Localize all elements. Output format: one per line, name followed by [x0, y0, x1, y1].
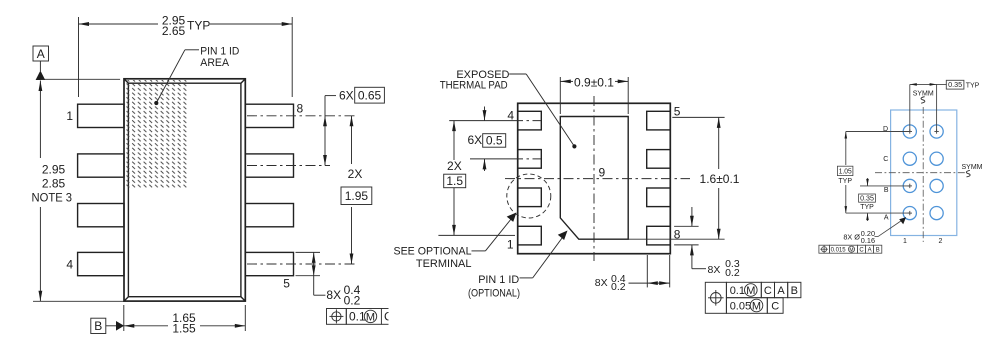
centerline pin 4 (middle) [449, 120, 541, 122]
svg-text:1: 1 [66, 109, 73, 123]
svg-text:C: C [883, 156, 888, 163]
svg-text:8X: 8X [708, 264, 721, 276]
svg-text:PIN 1 ID: PIN 1 ID [478, 274, 519, 286]
pin 7 terminal [647, 188, 671, 207]
svg-text:C: C [764, 285, 772, 297]
dimension 8X 0.4/0.2 (middle pin width) [595, 255, 670, 293]
svg-text:D: D [883, 126, 888, 133]
datum B [91, 318, 124, 333]
svg-text:8X: 8X [595, 277, 608, 289]
pad D1 [903, 125, 916, 138]
svg-text:0.1: 0.1 [349, 310, 366, 324]
svg-text:1.05: 1.05 [839, 169, 852, 176]
dimension 6X 0.5 (middle) [468, 107, 506, 172]
svg-text:8: 8 [297, 102, 304, 116]
svg-text:M: M [366, 311, 375, 323]
pad D2 [930, 125, 943, 138]
svg-text:0.05: 0.05 [730, 300, 751, 312]
svg-text:A: A [884, 214, 889, 221]
dimension 0.35 TYP (top, between columns) [910, 80, 980, 131]
svg-text:0.9±0.1: 0.9±0.1 [574, 75, 614, 89]
pin 7 (right) [245, 154, 293, 177]
svg-text:2.95: 2.95 [42, 163, 66, 177]
label PIN 1 ID AREA with leader [154, 45, 239, 105]
svg-text:1.5: 1.5 [446, 174, 463, 188]
svg-text:0.35: 0.35 [860, 196, 874, 203]
dimension 1.6 +/- 0.1 [628, 117, 740, 239]
pin 1 terminal (bottom-left) [507, 226, 541, 251]
label 8X diameter 0.20/0.16 with leader [843, 217, 906, 245]
svg-text:A: A [868, 248, 872, 254]
svg-text:THERMAL PAD: THERMAL PAD [440, 80, 508, 92]
pin 2 terminal [518, 188, 542, 207]
pad B2 [930, 179, 943, 192]
feature control frame 0.1 M (truncated) [327, 305, 403, 327]
label EXPOSED THERMAL PAD with leader [440, 69, 577, 148]
centerline pin 8 [247, 115, 356, 117]
svg-text:0.2: 0.2 [725, 267, 740, 279]
svg-text:0.35: 0.35 [948, 82, 962, 89]
svg-text:PIN 1 ID: PIN 1 ID [200, 45, 239, 57]
svg-text:TYP: TYP [966, 83, 980, 90]
svg-text:2: 2 [939, 238, 943, 245]
dimension 0.9 +/- 0.1 [560, 75, 628, 114]
svg-text:0.1: 0.1 [730, 285, 745, 297]
pin 1 (left) [66, 104, 124, 127]
horizontal centerline (middle view) [505, 178, 690, 180]
svg-text:TYP: TYP [860, 204, 874, 211]
exposed thermal pad outline [560, 117, 628, 240]
svg-text:1.55: 1.55 [172, 321, 196, 335]
svg-text:TYP: TYP [838, 178, 852, 185]
svg-text:2X: 2X [447, 159, 462, 173]
label SEE OPTIONAL TERMINAL with leader [394, 213, 517, 270]
optional terminal dashed circle [507, 174, 551, 218]
datum A [33, 46, 120, 80]
dimension 2X 1.5 (middle) [444, 121, 466, 236]
pin 3 (left) [78, 204, 124, 227]
pad A2 [930, 207, 943, 220]
svg-text:1: 1 [507, 238, 514, 252]
land pattern board outline [891, 110, 957, 236]
svg-text:SEE OPTIONAL: SEE OPTIONAL [394, 245, 472, 257]
centerline pin 3 (middle) [470, 158, 541, 160]
label PIN 1 ID (OPTIONAL) with leader [468, 231, 568, 300]
svg-text:0.015: 0.015 [831, 247, 847, 253]
svg-text:5: 5 [283, 277, 290, 291]
svg-text:0.2: 0.2 [344, 293, 361, 307]
row labels [883, 126, 889, 221]
svg-text:TERMINAL: TERMINAL [416, 258, 472, 270]
svg-text:TYP: TYP [187, 19, 210, 33]
svg-text:5: 5 [674, 105, 681, 119]
svg-text:8X: 8X [326, 288, 341, 302]
wire: top dimension extension line right [291, 17, 293, 97]
dimension 6X 0.65 [323, 87, 384, 165]
svg-text:M: M [752, 300, 761, 312]
svg-text:B: B [94, 319, 102, 333]
svg-text:A: A [777, 285, 785, 297]
pin 3 terminal [518, 150, 542, 169]
pad A1 [903, 207, 916, 220]
dimension 1.65/1.55 [124, 305, 246, 335]
column symm centerline (dash-dot vertical) [922, 107, 924, 242]
dimension 8X 0.3/0.2 (middle pin length) [674, 207, 740, 279]
svg-text:M: M [849, 247, 853, 253]
svg-text:4: 4 [66, 258, 73, 272]
pin 1 ID hatched area [125, 80, 188, 189]
SYMM label right [962, 164, 983, 177]
svg-text:C: C [771, 300, 779, 312]
pad C1 [903, 152, 916, 165]
dimension 2.95/2.65 TYP line [79, 14, 293, 38]
dimension 0.35 TYP (left, rows B to A) [859, 178, 910, 221]
pin 6 (right) [245, 204, 293, 227]
svg-text:NOTE 3: NOTE 3 [32, 191, 73, 205]
dimension 8X 0.4/0.2 (pin width) [296, 252, 361, 307]
svg-text:2X: 2X [348, 167, 363, 181]
svg-text:A: A [37, 47, 45, 61]
svg-text:B: B [876, 248, 880, 254]
svg-text:6X: 6X [468, 133, 483, 147]
column labels [903, 238, 943, 245]
svg-text:SYMM: SYMM [962, 164, 983, 171]
package body outline (bottom view) [518, 103, 671, 253]
svg-text:AREA: AREA [200, 57, 229, 69]
svg-text:9: 9 [599, 166, 606, 180]
pin 4 terminal (top-left) [507, 109, 541, 130]
pad C2 [930, 152, 943, 165]
centerline pin 5 [247, 263, 356, 265]
svg-text:0.65: 0.65 [358, 89, 382, 103]
svg-text:(OPTIONAL): (OPTIONAL) [468, 287, 520, 299]
pin 8 terminal (bottom-right) [647, 226, 681, 245]
feature control frame 0.015 M C A B (land) [819, 245, 882, 253]
svg-text:1: 1 [903, 238, 907, 245]
pad B1 [903, 179, 916, 192]
package body outline [124, 79, 245, 301]
pin 5 terminal (top-right) [647, 105, 681, 130]
svg-text:2.85: 2.85 [42, 177, 66, 191]
pin 2 (left) [78, 154, 124, 177]
pin 6 terminal [647, 150, 671, 169]
svg-text:6X: 6X [339, 89, 354, 103]
feature control frame 0.1 M C A B / 0.05 M C [705, 282, 801, 313]
vertical centerline (middle view) [593, 96, 595, 261]
pin 5 (right) [245, 252, 293, 290]
SYMM label top [913, 91, 934, 104]
dimension 2X 1.95 [341, 116, 372, 264]
svg-text:8X Ø: 8X Ø [843, 233, 860, 242]
centerline pin 1 (middle) [438, 234, 517, 236]
svg-text:B: B [884, 187, 889, 194]
svg-text:M: M [746, 285, 755, 297]
svg-text:B: B [791, 285, 798, 297]
svg-text:2.65: 2.65 [162, 24, 186, 38]
svg-text:C: C [859, 248, 864, 254]
svg-text:1.6±0.1: 1.6±0.1 [700, 172, 740, 186]
centerline pin 7 [247, 165, 330, 167]
row symm centerline (dash-dot horizontal) [875, 172, 966, 174]
svg-text:0.5: 0.5 [486, 134, 503, 148]
svg-text:0.2: 0.2 [611, 281, 626, 293]
svg-text:0.16: 0.16 [861, 236, 875, 245]
pin 4 (left) [66, 252, 124, 275]
dimension 1.05 TYP (left, rows D to A) [837, 132, 909, 214]
pin 8 (right) [245, 102, 303, 128]
wire: top dimension extension line left [78, 17, 80, 97]
dimension 2.95/2.85 NOTE 3 [32, 81, 124, 302]
svg-text:1.95: 1.95 [345, 189, 369, 203]
